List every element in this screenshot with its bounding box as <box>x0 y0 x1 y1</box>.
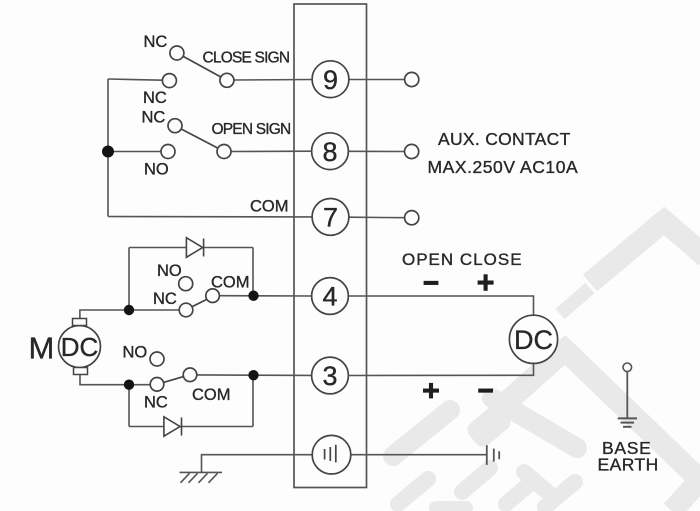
svg-text:MAX.250V AC10A: MAX.250V AC10A <box>428 157 579 177</box>
wire switch2 to terminal 8 <box>231 150 312 152</box>
junction dot upper-left (motor top) <box>124 305 134 315</box>
minus (lower) <box>478 389 493 393</box>
left bus vertical <box>107 79 109 217</box>
motor bottom lead <box>80 375 150 385</box>
aux circle row 7 <box>405 211 419 225</box>
wire DC minus to terminal 3 <box>348 363 533 375</box>
aux circle row 8 <box>405 144 419 158</box>
terminal 3 <box>312 357 349 394</box>
terminal 8 <box>312 133 349 170</box>
wire hatched ground to earth terminal <box>202 455 314 473</box>
svg-text:NO: NO <box>157 262 182 280</box>
base earth electrode <box>598 363 659 475</box>
top loop left vertical <box>128 248 130 311</box>
junction dot upper-right (to terminal 4) <box>248 291 258 301</box>
wire earth terminal to chassis mark <box>350 454 487 456</box>
wire terminal 9 to aux circle <box>349 79 405 81</box>
polarity marks lower row <box>423 383 493 399</box>
switch arm <box>164 377 184 383</box>
svg-text:9: 9 <box>323 65 338 95</box>
terminal 4 <box>312 278 349 315</box>
switch arm <box>192 299 207 307</box>
NC contact circle <box>150 378 164 392</box>
motor M <box>29 319 101 375</box>
DC source wiring <box>348 296 533 376</box>
watermark logo (light gray) <box>500 221 700 511</box>
wire COM2 to terminal 3 <box>197 374 312 377</box>
contact circle left <box>162 74 176 88</box>
svg-text:DC: DC <box>61 332 99 362</box>
NC contact circle top <box>168 119 182 133</box>
svg-text:NO: NO <box>144 161 169 179</box>
svg-text:NO: NO <box>123 344 148 362</box>
earth terminal circle <box>312 435 351 474</box>
minus (upper) <box>424 281 439 285</box>
labels top-left <box>142 33 291 216</box>
svg-text:NC: NC <box>144 33 168 51</box>
diode D1 <box>186 238 203 258</box>
earth bars <box>618 418 637 426</box>
pivot circle <box>217 145 231 159</box>
switch S4 (lower motor switch) <box>150 352 197 391</box>
switch S3 (upper motor switch) <box>179 277 220 317</box>
labels S4 <box>123 344 231 412</box>
svg-text:NC: NC <box>153 290 177 308</box>
terminal 9 <box>312 61 349 98</box>
svg-text:8: 8 <box>322 137 337 167</box>
wire terminal 7 to aux circle <box>349 216 405 219</box>
brush bottom <box>74 368 88 375</box>
NO contact circle <box>179 277 193 291</box>
NC contact circle top <box>170 46 184 60</box>
vertical line <box>626 372 628 418</box>
bottom loop left vertical <box>128 385 130 427</box>
switch S2 (OPEN SIGN) <box>161 119 231 159</box>
diode D2 <box>164 417 182 436</box>
switch S1 (CLOSE SIGN) <box>162 46 234 88</box>
junction dot lower-left (motor bottom) <box>124 380 134 390</box>
contact circle left <box>161 145 175 159</box>
switch arm <box>181 129 218 149</box>
COM pivot circle <box>206 289 220 303</box>
svg-text:OPEN SIGN: OPEN SIGN <box>212 121 291 138</box>
wire COM row to terminal 7 <box>108 216 312 218</box>
NC contact circle <box>179 303 193 317</box>
terminal 7 <box>312 199 349 236</box>
svg-text:4: 4 <box>322 282 337 312</box>
junction dot on bus <box>102 146 114 158</box>
svg-text:COM: COM <box>192 386 231 404</box>
wire switch1 to terminal 9 <box>234 79 312 82</box>
svg-text:AUX. CONTACT: AUX. CONTACT <box>438 129 571 149</box>
svg-text:OPEN CLOSE: OPEN CLOSE <box>402 250 523 269</box>
wires: row 9 <box>108 79 405 218</box>
plus (lower) <box>423 389 439 393</box>
NO contact circle <box>150 352 164 366</box>
junction dot lower-right (to terminal 3) <box>248 370 258 380</box>
svg-text:3: 3 <box>322 361 337 391</box>
svg-text:NC: NC <box>144 394 168 412</box>
antenna circle <box>623 363 632 372</box>
brush top <box>73 319 87 326</box>
motor loop wires <box>80 248 312 427</box>
aux contact text <box>428 129 579 177</box>
motor top lead <box>80 310 179 319</box>
svg-text:DC: DC <box>514 325 553 355</box>
svg-text:NC: NC <box>142 109 166 127</box>
pivot circle <box>220 73 234 87</box>
chassis earth mark (right of earth terminal) <box>487 445 499 465</box>
switch arm <box>183 56 221 77</box>
wire bus-to-NO contact row8 <box>108 151 161 153</box>
svg-text:COM: COM <box>211 274 250 292</box>
wire terminal 8 to aux circle <box>348 150 404 152</box>
aux circle row 9 <box>405 72 419 86</box>
wire terminal 4 to DC plus <box>348 296 533 315</box>
DC source circle <box>509 315 557 363</box>
wire bus-to-NC contact row9 <box>108 79 163 80</box>
diode D2 wire <box>129 426 253 428</box>
plus (upper) <box>478 281 494 285</box>
svg-text:NC: NC <box>143 89 167 107</box>
wire COM1 to terminal 4 <box>219 295 311 297</box>
bottom loop right vertical <box>252 375 254 426</box>
diode D1 wire <box>129 247 253 249</box>
hatched ground symbol <box>180 472 223 482</box>
COM pivot circle <box>183 368 197 382</box>
motor circle <box>59 326 101 368</box>
terminal strip <box>294 4 367 488</box>
svg-text:CLOSE SIGN: CLOSE SIGN <box>203 50 290 67</box>
labels S3 <box>153 262 250 308</box>
polarity marks upper row <box>424 274 494 291</box>
aux terminal circles right of strip <box>405 72 419 224</box>
svg-text:COM: COM <box>250 198 289 216</box>
svg-text:M: M <box>29 331 55 366</box>
earth terminal wiring <box>202 455 487 473</box>
top loop right vertical <box>252 248 254 296</box>
svg-text:EARTH: EARTH <box>598 455 659 475</box>
svg-text:7: 7 <box>323 203 338 233</box>
